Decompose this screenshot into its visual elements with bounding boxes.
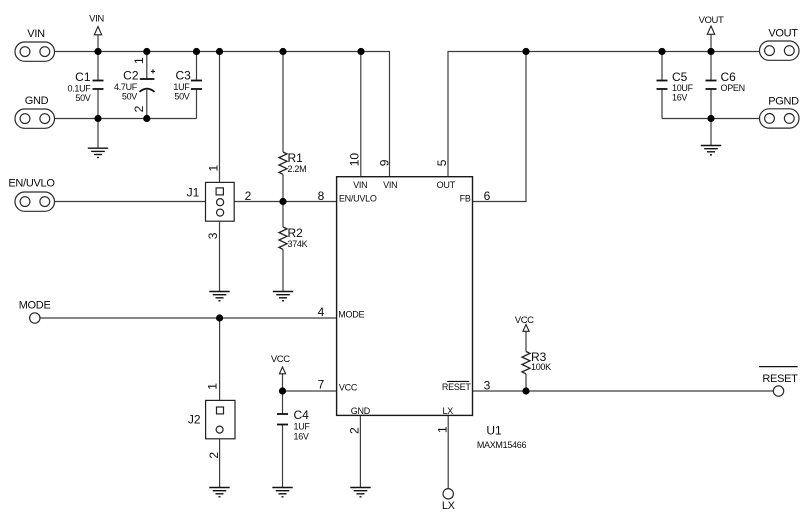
svg-text:C2: C2 bbox=[123, 69, 139, 83]
svg-text:3: 3 bbox=[484, 379, 491, 393]
svg-text:4: 4 bbox=[318, 305, 325, 319]
svg-text:1UF: 1UF bbox=[173, 82, 190, 92]
svg-text:VIN: VIN bbox=[89, 14, 104, 25]
svg-text:J1: J1 bbox=[187, 186, 200, 200]
svg-text:1: 1 bbox=[132, 57, 146, 64]
svg-text:FB: FB bbox=[460, 193, 471, 203]
svg-text:C3: C3 bbox=[175, 69, 191, 83]
svg-text:RESET: RESET bbox=[442, 382, 472, 392]
svg-text:EN/UVLO: EN/UVLO bbox=[339, 193, 377, 203]
svg-text:9: 9 bbox=[378, 159, 392, 166]
svg-text:J2: J2 bbox=[188, 413, 201, 427]
svg-text:10: 10 bbox=[348, 153, 362, 167]
svg-text:5: 5 bbox=[435, 159, 449, 166]
svg-text:16V: 16V bbox=[294, 432, 309, 442]
svg-text:GND: GND bbox=[351, 406, 371, 416]
svg-text:1: 1 bbox=[207, 165, 221, 172]
svg-text:374K: 374K bbox=[288, 239, 308, 249]
svg-text:8: 8 bbox=[318, 189, 325, 203]
svg-text:VIN: VIN bbox=[383, 180, 397, 190]
svg-text:R2: R2 bbox=[288, 226, 304, 240]
svg-text:OUT: OUT bbox=[437, 180, 456, 190]
svg-text:C5: C5 bbox=[672, 70, 688, 84]
svg-text:1: 1 bbox=[206, 383, 220, 390]
svg-text:C1: C1 bbox=[75, 70, 91, 84]
svg-text:2: 2 bbox=[245, 189, 252, 203]
svg-text:1: 1 bbox=[436, 426, 450, 433]
svg-text:50V: 50V bbox=[174, 92, 189, 102]
svg-text:2: 2 bbox=[207, 452, 221, 459]
svg-text:7: 7 bbox=[318, 378, 325, 392]
svg-text:6: 6 bbox=[484, 189, 491, 203]
svg-text:2: 2 bbox=[348, 427, 362, 434]
svg-text:100K: 100K bbox=[531, 362, 551, 372]
svg-text:VOUT: VOUT bbox=[699, 15, 724, 26]
svg-text:VIN: VIN bbox=[27, 28, 45, 40]
svg-text:VCC: VCC bbox=[271, 354, 290, 365]
svg-text:MAXM15466: MAXM15466 bbox=[477, 440, 527, 450]
svg-text:PGND: PGND bbox=[768, 96, 799, 108]
svg-text:EN/UVLO: EN/UVLO bbox=[8, 178, 55, 190]
svg-text:C6: C6 bbox=[721, 70, 737, 84]
svg-text:VCC: VCC bbox=[515, 315, 534, 326]
svg-text:3: 3 bbox=[206, 232, 220, 239]
svg-text:2.2M: 2.2M bbox=[288, 164, 307, 174]
svg-text:10UF: 10UF bbox=[672, 83, 694, 93]
svg-text:C4: C4 bbox=[294, 408, 310, 422]
svg-text:VOUT: VOUT bbox=[768, 28, 798, 40]
svg-text:U1: U1 bbox=[486, 424, 502, 438]
svg-text:MODE: MODE bbox=[19, 300, 51, 312]
svg-text:R1: R1 bbox=[288, 151, 304, 165]
svg-text:50V: 50V bbox=[122, 92, 137, 102]
svg-text:VIN: VIN bbox=[353, 180, 367, 190]
svg-text:2: 2 bbox=[132, 105, 146, 112]
svg-text:0.1UF: 0.1UF bbox=[67, 84, 91, 94]
svg-text:VCC: VCC bbox=[339, 382, 358, 392]
svg-text:GND: GND bbox=[25, 95, 49, 107]
svg-text:LX: LX bbox=[442, 406, 453, 416]
svg-text:LX: LX bbox=[442, 500, 456, 512]
svg-text:16V: 16V bbox=[672, 93, 687, 103]
svg-text:1UF: 1UF bbox=[294, 422, 311, 432]
svg-text:50V: 50V bbox=[75, 93, 90, 103]
svg-text:4.7UF: 4.7UF bbox=[114, 82, 138, 92]
svg-text:RESET: RESET bbox=[762, 373, 798, 385]
svg-text:MODE: MODE bbox=[338, 310, 364, 320]
svg-text:OPEN: OPEN bbox=[721, 83, 745, 93]
